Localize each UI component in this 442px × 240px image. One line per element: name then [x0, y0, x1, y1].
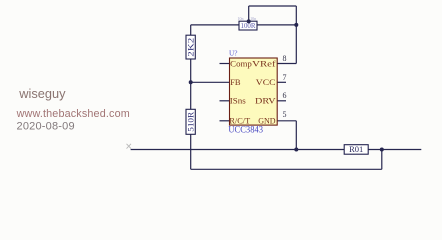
svg-text:10n: 10n	[250, 17, 256, 21]
junction rail GND	[294, 148, 298, 152]
wire VRef row right segment	[257, 24, 296, 26]
pin stub VCC pin 7	[277, 81, 286, 83]
svg-text:2020-08-09: 2020-08-09	[17, 121, 75, 133]
wire top loop left vertical to C junction	[248, 6, 250, 22]
wire GND pin 5 horizontal	[277, 120, 296, 122]
svg-text:8: 8	[283, 54, 287, 63]
svg-text:510R: 510R	[187, 111, 196, 132]
pin stub DRV pin 6	[277, 100, 286, 102]
svg-text:R01: R01	[349, 144, 363, 154]
resistor 510R	[186, 109, 196, 134]
wire FB node to IC	[191, 81, 230, 83]
wire right vertical to pin 8	[295, 6, 297, 64]
svg-text:Comp: Comp	[230, 58, 252, 68]
pin stub Comp	[220, 63, 230, 65]
wire lower return up to rail	[381, 150, 383, 170]
junction rail right of R01	[380, 148, 384, 152]
wire 2K2 to 510R	[190, 59, 192, 110]
pin stub R/C/T	[220, 120, 230, 122]
pin stub ISns	[220, 100, 230, 102]
junction top of 100R	[247, 19, 251, 23]
svg-text:www.thebackshed.com: www.thebackshed.com	[16, 108, 130, 120]
wire 510R down	[190, 134, 192, 169]
svg-text:wiseguy: wiseguy	[18, 86, 66, 101]
resistor 100R	[239, 21, 257, 30]
op-amp U1 UCC3843 body	[230, 58, 278, 125]
svg-text:FB: FB	[230, 77, 241, 87]
resistor R01	[344, 144, 368, 154]
wire lower return horizontal	[191, 168, 382, 170]
svg-text:7: 7	[283, 73, 287, 82]
resistor 2K2	[186, 35, 196, 59]
wire VRef row left segment	[191, 24, 239, 26]
wire top loop horizontal	[249, 5, 297, 7]
no-ERC cross at rail left end	[127, 144, 132, 149]
junction VRef row right	[294, 23, 298, 27]
svg-text:10n: 10n	[238, 17, 244, 21]
wire bottom rail left of R01	[131, 149, 345, 151]
svg-text:VRef: VRef	[252, 58, 276, 68]
svg-text:6: 6	[283, 91, 287, 100]
svg-text:ISns: ISns	[230, 96, 246, 106]
wire GND pin 5 vertical to rail	[295, 121, 297, 150]
svg-text:VCC: VCC	[256, 77, 276, 87]
wire pin 8 VRef	[277, 63, 296, 65]
svg-text:2K2: 2K2	[186, 38, 196, 57]
svg-text:5: 5	[283, 110, 287, 119]
junction FB node	[189, 80, 193, 84]
svg-text:GND: GND	[258, 116, 275, 126]
wire down to R 2K2	[190, 25, 192, 36]
svg-text:DRV: DRV	[255, 96, 277, 106]
wire bottom rail right of R01	[368, 149, 421, 151]
svg-text:U?: U?	[229, 49, 238, 58]
svg-text:R/C/T: R/C/T	[229, 116, 251, 126]
svg-text:UCC3843: UCC3843	[228, 124, 263, 134]
